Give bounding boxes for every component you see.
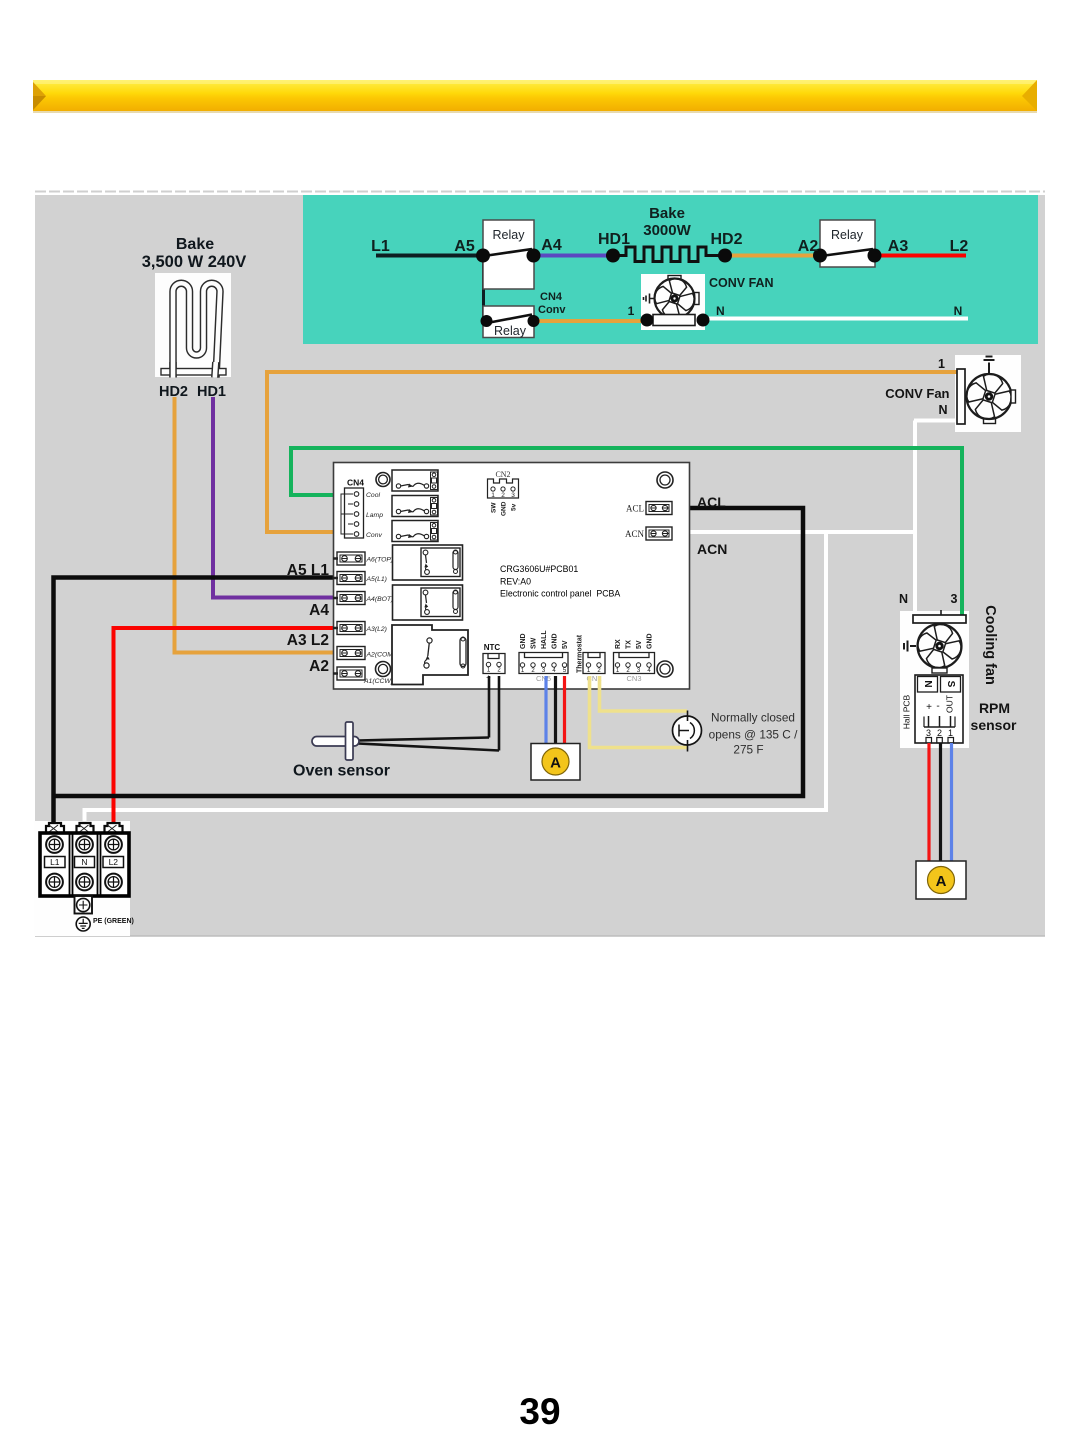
- svg-text:A1(CCW): A1(CCW): [363, 678, 393, 685]
- svg-text:N: N: [938, 403, 947, 417]
- svg-text:3: 3: [951, 592, 958, 606]
- svg-text:L1: L1: [371, 238, 390, 255]
- svg-text:A4: A4: [541, 237, 562, 254]
- svg-text:A3 L2: A3 L2: [287, 632, 329, 649]
- svg-text:GND: GND: [647, 633, 654, 649]
- svg-text:NTC: NTC: [484, 643, 501, 652]
- svg-text:Normally closed: Normally closed: [711, 711, 795, 725]
- svg-text:3,500 W 240V: 3,500 W 240V: [142, 253, 247, 271]
- svg-text:A4: A4: [309, 602, 329, 619]
- svg-text:HALL: HALL: [541, 630, 548, 649]
- svg-text:Conv: Conv: [538, 304, 566, 316]
- svg-text:Bake: Bake: [649, 205, 685, 222]
- svg-text:HD2: HD2: [710, 231, 742, 248]
- svg-text:ACL: ACL: [697, 494, 726, 510]
- svg-text:N: N: [922, 680, 933, 687]
- svg-text:39: 39: [519, 1391, 560, 1432]
- svg-text:SW: SW: [531, 637, 538, 649]
- svg-text:5v: 5v: [511, 503, 518, 511]
- svg-text:S: S: [945, 681, 956, 688]
- svg-text:HD2: HD2: [159, 384, 188, 400]
- svg-text:ACL: ACL: [626, 504, 644, 514]
- svg-text:SW: SW: [491, 502, 498, 513]
- svg-text:HD1: HD1: [197, 384, 226, 400]
- svg-text:opens @ 135 C /: opens @ 135 C /: [709, 728, 798, 742]
- svg-text:HD1: HD1: [598, 231, 630, 248]
- svg-text:N: N: [899, 592, 908, 606]
- svg-text:Conv: Conv: [366, 532, 382, 539]
- svg-text:ACN: ACN: [625, 529, 645, 539]
- svg-text:A: A: [936, 873, 947, 890]
- svg-text:A: A: [550, 755, 561, 772]
- svg-text:TX: TX: [626, 640, 633, 649]
- svg-text:A2: A2: [309, 658, 329, 675]
- svg-text:sensor: sensor: [971, 717, 1017, 733]
- svg-text:3000W: 3000W: [643, 222, 691, 239]
- svg-text:-: -: [936, 701, 939, 712]
- svg-text:Hall PCB: Hall PCB: [902, 694, 912, 729]
- svg-text:1: 1: [938, 357, 945, 371]
- svg-text:2: 2: [501, 492, 505, 499]
- svg-text:ACN: ACN: [697, 541, 727, 557]
- svg-text:Oven sensor: Oven sensor: [293, 763, 390, 780]
- svg-text:CONV Fan: CONV Fan: [885, 386, 949, 401]
- svg-text:3: 3: [511, 492, 515, 499]
- svg-text:Electronic control panel PCBA: Electronic control panel PCBA: [500, 589, 620, 599]
- svg-text:CN2: CN2: [495, 470, 510, 479]
- svg-text:5V: 5V: [636, 640, 643, 649]
- svg-text:A5(L1): A5(L1): [366, 576, 387, 583]
- svg-text:Lamp: Lamp: [366, 512, 383, 519]
- svg-text:L2: L2: [950, 238, 969, 255]
- svg-text:A5: A5: [454, 238, 475, 255]
- svg-text:Relay: Relay: [831, 228, 864, 242]
- svg-text:1: 1: [628, 304, 635, 318]
- svg-text:OUT: OUT: [945, 695, 955, 713]
- svg-text:Bake: Bake: [176, 236, 214, 253]
- svg-text:CN4: CN4: [347, 478, 364, 488]
- svg-text:REV:A0: REV:A0: [500, 577, 531, 587]
- svg-text:CN4: CN4: [540, 291, 563, 303]
- svg-text:A3(L2): A3(L2): [366, 626, 387, 633]
- svg-text:+: +: [926, 702, 932, 713]
- svg-text:GND: GND: [552, 633, 559, 649]
- svg-text:Cool: Cool: [366, 492, 380, 499]
- svg-text:CN3: CN3: [626, 674, 641, 683]
- svg-text:PE (GREEN): PE (GREEN): [93, 918, 134, 925]
- svg-text:N: N: [81, 857, 87, 867]
- svg-text:A2: A2: [798, 238, 819, 255]
- svg-text:A6(TOP): A6(TOP): [366, 557, 394, 564]
- svg-text:L1: L1: [50, 857, 60, 867]
- svg-text:A4(BOT): A4(BOT): [366, 596, 394, 603]
- svg-text:GND: GND: [501, 501, 508, 516]
- svg-text:L2: L2: [109, 857, 119, 867]
- svg-text:CRG3606U#PCB01: CRG3606U#PCB01: [500, 564, 578, 574]
- svg-text:Cooling fan: Cooling fan: [982, 605, 998, 685]
- svg-text:Relay: Relay: [494, 324, 527, 338]
- svg-text:N: N: [954, 304, 963, 318]
- svg-text:275 F: 275 F: [733, 743, 763, 757]
- svg-text:GND: GND: [520, 633, 527, 649]
- svg-text:1: 1: [948, 728, 953, 738]
- svg-text:5V: 5V: [562, 640, 569, 649]
- svg-text:2: 2: [937, 728, 942, 738]
- svg-text:N: N: [716, 304, 725, 318]
- svg-text:3: 3: [926, 728, 931, 738]
- svg-text:1: 1: [491, 492, 495, 499]
- svg-text:RPM: RPM: [979, 700, 1010, 716]
- svg-text:CONV FAN: CONV FAN: [709, 276, 774, 290]
- svg-text:A3: A3: [888, 238, 909, 255]
- svg-text:CN5: CN5: [536, 674, 551, 683]
- svg-text:RX: RX: [615, 639, 622, 649]
- svg-text:Relay: Relay: [493, 228, 526, 242]
- svg-text:A2(COM): A2(COM): [366, 652, 396, 659]
- svg-text:A5 L1: A5 L1: [287, 562, 330, 579]
- svg-text:Thermostat: Thermostat: [577, 634, 584, 673]
